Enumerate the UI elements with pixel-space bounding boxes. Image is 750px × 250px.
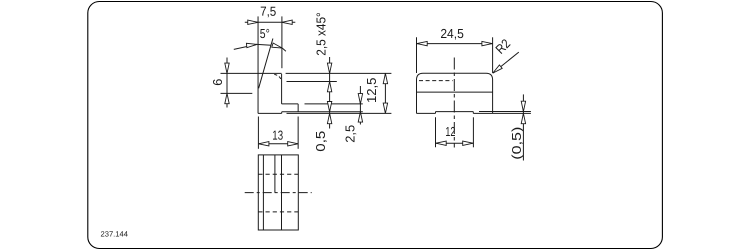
chamfer bottom extension line: [287, 81, 337, 83]
plan hidden line upper: [258, 173, 298, 175]
side centerline: [453, 58, 455, 148]
dimension (0,5) line: [522, 94, 524, 160]
side step right: [472, 112, 474, 114]
dimension (0,5) upper extension: [479, 111, 531, 113]
plan hidden line lower: [258, 211, 298, 213]
svg-text:0,5: 0,5: [313, 131, 328, 152]
angle dimension 5 deg leader left: [234, 44, 257, 49]
dimension 0,5 top arrow: [327, 102, 331, 112]
dimension 7,5 right arrow: [282, 20, 292, 24]
side hidden line: [419, 80, 453, 82]
dimension 13 left arrow: [259, 142, 269, 146]
sheet border: [88, 2, 663, 249]
dimension 12,5 line: [384, 73, 386, 113]
plan centerline: [245, 192, 312, 194]
svg-text:2,5 x45°: 2,5 x45°: [313, 12, 328, 56]
side bottom right foot: [473, 112, 492, 114]
dimension 6 bottom arrow: [225, 93, 229, 103]
dimension 12,5 top arrow inside: [383, 73, 387, 83]
radius leader arrow: [491, 65, 502, 75]
svg-text:24,5: 24,5: [440, 26, 464, 41]
dimension 6 line: [226, 58, 228, 108]
top surface line with extensions: [221, 72, 282, 74]
side step left: [435, 112, 437, 114]
dimension 12 left extension: [435, 117, 437, 147]
svg-text:13: 13: [272, 128, 283, 143]
bend radius hidden arc: [274, 74, 281, 80]
dimension 7,5 line: [245, 21, 295, 23]
bottom extension line: [287, 112, 392, 114]
dimension (0,5) top arrow: [521, 101, 525, 111]
svg-text:7,5: 7,5: [260, 4, 276, 19]
dimension 24,5 right extension: [492, 37, 494, 73]
dimension 7,5 left arrow: [248, 20, 258, 24]
projection extension left: [257, 117, 259, 149]
bottom step vertical 0,5: [281, 112, 283, 114]
projection extension right: [297, 117, 299, 149]
dimension 2,5 line column: [359, 86, 361, 125]
dimension 12 left arrow: [436, 141, 446, 145]
tab right edge lower: [281, 74, 283, 104]
notch right vertical: [297, 104, 299, 112]
chamfer dimension line column: [329, 57, 331, 129]
notch top edge: [282, 103, 299, 105]
dimension 2,5 top arrow: [358, 94, 362, 104]
dimension 24,5 right arrow: [482, 41, 492, 45]
side bottom left foot: [417, 112, 436, 114]
svg-text:2,5: 2,5: [342, 125, 357, 143]
plan inner line right: [281, 155, 283, 230]
svg-text:5°: 5°: [260, 26, 270, 41]
dimension (0,5) lower extension: [493, 112, 531, 114]
dimension 6 lower extension: [221, 92, 253, 94]
chamfer top arrow: [327, 63, 331, 73]
notch top extension line: [305, 103, 363, 105]
svg-text:237.144: 237.144: [100, 230, 127, 239]
dimension 0,5 bottom arrow: [327, 113, 331, 123]
angle dimension left arrow: [246, 42, 257, 47]
dimension 24,5 left extension: [416, 37, 418, 73]
dimension 12 right extension: [472, 117, 474, 147]
dimension 24,5 left arrow: [417, 41, 427, 45]
tab right edge upper / extension line: [281, 16, 283, 68]
part left edge / extension line: [257, 16, 259, 113]
svg-text:6: 6: [210, 79, 225, 86]
angle dimension tail: [282, 48, 286, 51]
dimension 13 right arrow: [288, 142, 298, 146]
angle dimension arc line: [257, 43, 271, 46]
dimension 12,5 bottom arrow inside: [383, 103, 387, 113]
side bottom recess: [436, 111, 474, 113]
svg-text:12: 12: [445, 124, 455, 139]
recess line + extension: [282, 111, 363, 113]
plan half line: [274, 155, 276, 193]
svg-text:(0,5): (0,5): [509, 127, 524, 160]
dimension 24,5 line: [417, 43, 493, 45]
dimension (0,5) bottom arrow: [521, 113, 525, 123]
plan inner line left: [262, 155, 264, 230]
tab slanted edge (5 deg bend): [259, 39, 273, 89]
svg-text:12,5: 12,5: [364, 78, 379, 104]
dimension 13 line: [259, 143, 298, 145]
radius leader R2: [493, 52, 519, 73]
part bottom edge: [258, 112, 282, 114]
dimension 12 line: [436, 142, 474, 144]
dimension 6 top arrow: [225, 63, 229, 73]
side mid line: [417, 91, 493, 93]
dimension 12 right arrow: [463, 141, 473, 145]
chamfer bottom arrow: [327, 82, 331, 92]
plan outline: [258, 155, 298, 230]
side outline with rounded top corners: [417, 73, 493, 113]
angle dimension right arrow: [272, 43, 283, 50]
dimension 2,5 bottom arrow: [358, 112, 362, 122]
